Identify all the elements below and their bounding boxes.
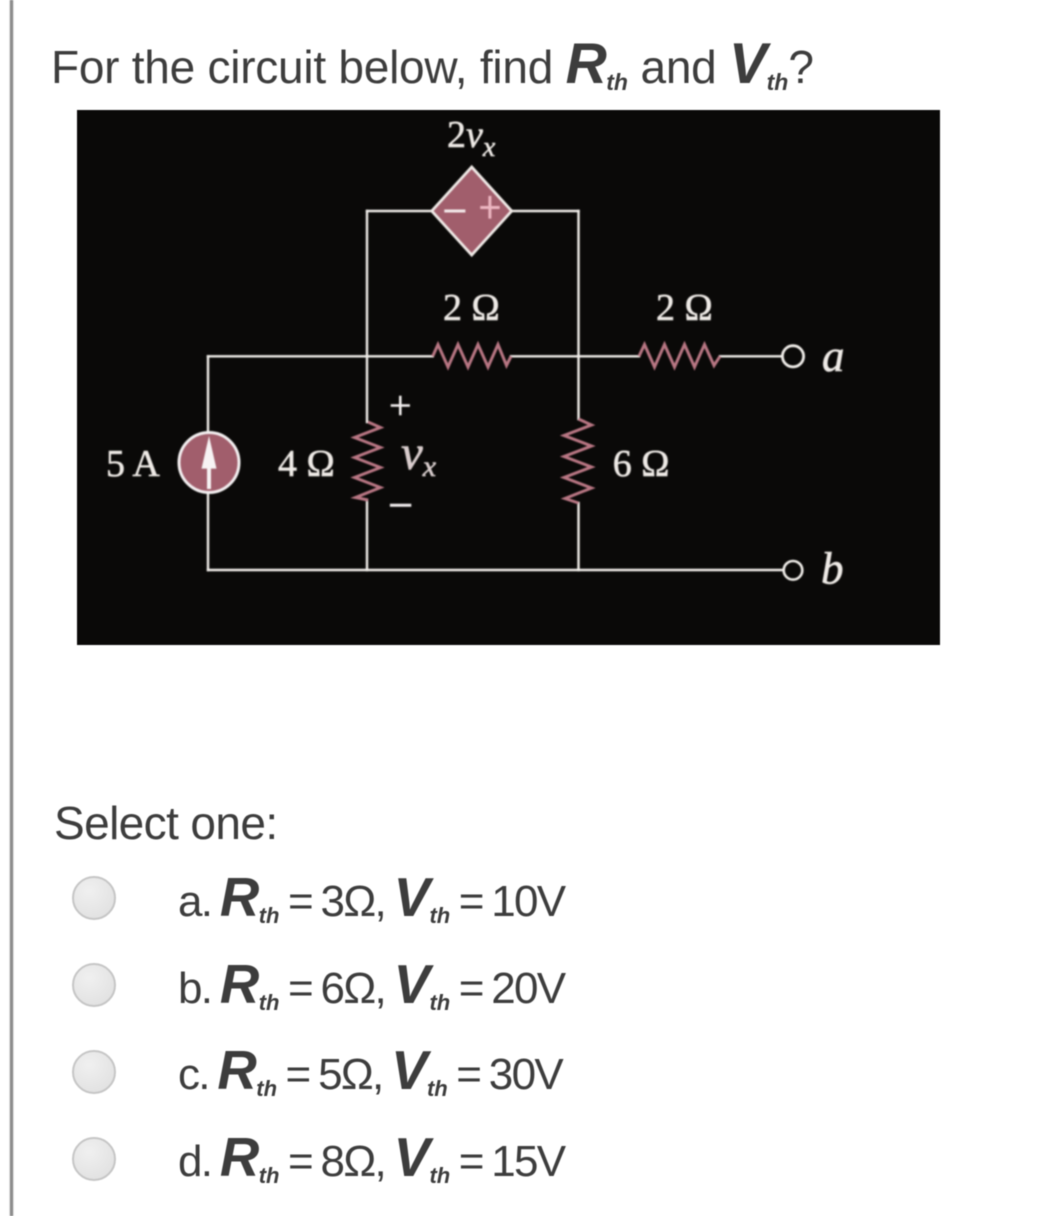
current source I1 arrow shaft xyxy=(207,462,211,489)
current source I1 arrow head xyxy=(202,436,217,469)
wire middle between resistor R1 and junction with right branch xyxy=(511,355,639,357)
option c text xyxy=(178,1039,562,1102)
wire left branch upper xyxy=(366,211,368,422)
left page border line xyxy=(10,0,13,1216)
terminal node a circle xyxy=(782,346,803,367)
wire top loop xyxy=(367,210,579,212)
wire from resistor R2 to terminal a xyxy=(720,355,782,357)
svg-text:2 Ω: 2 Ω xyxy=(443,287,500,329)
terminal node b circle xyxy=(784,561,803,580)
current source I1 (5 A) circle body xyxy=(179,433,239,493)
circuit panel xyxy=(77,110,940,645)
svg-text:4 Ω: 4 Ω xyxy=(278,443,335,485)
wire right branch lower xyxy=(577,503,579,570)
svg-text:+: + xyxy=(389,383,412,428)
wire bottom to terminal b xyxy=(208,569,783,571)
minus sign inside dependent source diamond xyxy=(444,210,465,213)
svg-text:a: a xyxy=(822,331,845,381)
resistor R3 4ohm vertical zigzag xyxy=(355,422,381,500)
option d text xyxy=(178,1126,564,1189)
select one heading xyxy=(54,796,278,850)
option d radio xyxy=(72,1137,116,1181)
svg-text:vx: vx xyxy=(401,425,437,483)
option b radio xyxy=(72,963,116,1007)
label vx minus sign xyxy=(390,504,411,507)
svg-text:b: b xyxy=(821,544,844,594)
option a text xyxy=(178,866,564,929)
option a radio xyxy=(72,876,116,920)
option c radio xyxy=(72,1050,116,1094)
svg-text:5 A: 5 A xyxy=(106,443,160,485)
option b text xyxy=(178,953,564,1016)
svg-text:2 Ω: 2 Ω xyxy=(656,287,713,329)
resistor R1 2ohm left zigzag xyxy=(433,345,511,368)
resistor R4 6ohm vertical zigzag xyxy=(564,419,592,503)
wire right branch upper xyxy=(577,211,579,419)
svg-text:6 Ω: 6 Ω xyxy=(613,443,670,485)
svg-text:2vx: 2vx xyxy=(447,114,496,163)
resistor R2 2ohm right zigzag xyxy=(639,345,720,368)
title xyxy=(51,31,814,97)
wire current source branch vertical xyxy=(207,356,209,570)
wire left branch lower xyxy=(366,500,368,570)
dependent voltage source E1 (2vx) diamond body xyxy=(432,167,512,255)
plus sign inside dependent source diamond xyxy=(480,196,500,219)
wire middle from node at current source branch to resistor R1 xyxy=(208,355,433,357)
